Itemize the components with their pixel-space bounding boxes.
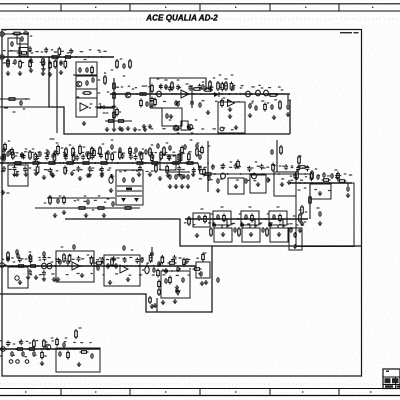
capacitor C16 (286, 104, 290, 110)
ground (29, 68, 33, 73)
label (121, 86, 124, 87)
node (273, 173, 275, 175)
wire (254, 219, 256, 228)
wire (76, 75, 97, 77)
label (148, 86, 150, 87)
label (178, 87, 181, 88)
label (229, 167, 232, 168)
label (169, 119, 172, 120)
enclosure box (162, 108, 182, 126)
ground (126, 277, 130, 282)
note ring mod (340, 32, 359, 33)
capacitor C5 (59, 60, 63, 66)
capacitor C27 (195, 143, 199, 149)
node N14 (27, 162, 29, 164)
enclosure box cell1b (214, 228, 232, 242)
node (262, 93, 264, 95)
node N23 (24, 265, 26, 267)
label (195, 87, 197, 88)
node N27 (162, 269, 164, 271)
label (166, 142, 169, 143)
capacitor (129, 154, 133, 160)
resistor R20 (279, 100, 282, 110)
capacitor (247, 166, 251, 172)
border zone tick (27, 7, 28, 8)
label (299, 155, 302, 156)
resistor R31 (81, 162, 91, 165)
label (241, 85, 244, 86)
capacitor C39 (28, 254, 32, 260)
node N11 (251, 93, 253, 95)
label (46, 149, 49, 150)
node (157, 162, 159, 164)
capacitor C53 (15, 249, 19, 255)
label (94, 200, 97, 201)
label (273, 165, 276, 166)
node (179, 268, 181, 270)
label (290, 223, 293, 224)
node (153, 265, 155, 267)
label (215, 101, 217, 102)
diode D2 (176, 291, 180, 295)
label (63, 152, 65, 153)
label (179, 257, 182, 258)
capacitor (44, 47, 48, 53)
resistor R2 (7, 58, 10, 68)
capacitor (100, 166, 104, 172)
label (171, 259, 174, 260)
capacitor C60 (145, 101, 149, 107)
potentiometer VR2 (145, 263, 149, 274)
capacitor C29 (111, 201, 115, 207)
label (26, 341, 28, 342)
faint fold line bottom (0, 383, 400, 385)
ground (318, 221, 322, 226)
resistor R62 (168, 262, 177, 265)
ground (52, 277, 56, 282)
label (120, 58, 123, 59)
resistor (34, 152, 37, 162)
node (75, 56, 77, 58)
signal bus wire (185, 218, 308, 220)
node (278, 173, 280, 175)
capacitor (198, 84, 202, 90)
capacitor (272, 214, 276, 220)
ground (112, 104, 116, 109)
ground (300, 221, 304, 226)
node (74, 162, 76, 164)
label (281, 89, 284, 90)
label (290, 175, 293, 176)
capacitor (18, 257, 22, 263)
resistor R46 (196, 147, 199, 157)
capacitor (330, 173, 334, 179)
label (73, 152, 76, 153)
ground (153, 303, 157, 308)
svg-text:ACE QUALIA AD-2: ACE QUALIA AD-2 (145, 14, 218, 23)
capacitor C9 (165, 113, 169, 119)
capacitor C47 (164, 268, 168, 274)
label (90, 273, 92, 274)
ground (105, 127, 109, 132)
label (221, 224, 223, 225)
op-amp U4 (120, 265, 128, 273)
wire (168, 171, 190, 173)
resistor R32 (99, 162, 109, 165)
node (101, 56, 103, 58)
ground (286, 112, 290, 117)
resistor R33 (135, 162, 145, 165)
resistor R36 (150, 162, 160, 165)
resistor R16 (209, 80, 212, 90)
resistor R16 (116, 59, 119, 69)
resistor (75, 329, 78, 339)
wire (105, 120, 132, 122)
resistor (91, 147, 94, 156)
label (0, 340, 2, 341)
wire (282, 219, 284, 228)
resistor R38 (185, 162, 195, 165)
capacitor (22, 153, 26, 159)
node (28, 56, 30, 58)
label (38, 152, 41, 153)
label (157, 78, 160, 79)
node (184, 162, 186, 164)
node (187, 218, 189, 220)
capacitor (174, 100, 178, 106)
capacitor (212, 222, 216, 228)
node (213, 93, 215, 95)
capacitor (6, 256, 10, 262)
ground (204, 280, 208, 285)
border zone divider (199, 389, 201, 396)
label (80, 169, 83, 170)
ground (88, 173, 92, 178)
label (98, 79, 101, 80)
capacitor C10 (85, 67, 89, 73)
border zone tick (305, 7, 306, 8)
resistor (183, 258, 186, 267)
label (268, 87, 271, 88)
label (76, 273, 79, 274)
ground (175, 285, 179, 290)
label (8, 140, 11, 141)
node (87, 56, 89, 58)
node (42, 348, 44, 350)
capacitor (296, 166, 300, 172)
resistor R11 (107, 120, 116, 123)
capacitor (180, 174, 184, 180)
capacitor (88, 166, 92, 172)
resistor R54 (17, 265, 26, 268)
ground (15, 172, 19, 177)
ground (24, 172, 28, 177)
resistor R8 (113, 81, 116, 91)
label (10, 50, 13, 51)
label (222, 127, 225, 128)
wire (226, 219, 228, 228)
label (23, 108, 26, 109)
resistor R13 (138, 93, 148, 96)
label (201, 208, 204, 209)
label (291, 165, 294, 166)
resistor (221, 82, 224, 92)
label (176, 275, 179, 276)
ground (42, 175, 46, 180)
label (173, 128, 175, 129)
section boundary wire (49, 57, 290, 134)
label (4, 107, 8, 108)
label (293, 215, 296, 216)
terminal ring (16, 360, 20, 364)
node (13, 162, 15, 164)
label (89, 49, 92, 50)
label (261, 87, 264, 88)
resistor (238, 227, 241, 237)
label (113, 152, 116, 153)
node (27, 348, 29, 350)
capacitor (19, 339, 23, 345)
capacitor (66, 259, 70, 265)
capacitor C35 (270, 149, 274, 155)
capacitor (20, 153, 24, 159)
label (99, 169, 102, 170)
label (41, 51, 44, 52)
wire (0, 33, 28, 35)
label (102, 274, 104, 275)
label (74, 200, 76, 201)
resistor R71 (264, 103, 267, 112)
label (45, 341, 47, 342)
node (39, 162, 41, 164)
node N6 (136, 93, 138, 95)
enclosure box (228, 178, 244, 194)
label (204, 167, 207, 168)
resistor R29 (47, 162, 57, 165)
label (132, 170, 135, 171)
label (119, 150, 122, 151)
resistor R76 (63, 196, 66, 205)
ground (221, 232, 225, 237)
label (227, 225, 230, 226)
capacitor (185, 258, 189, 264)
op-amp U3 (72, 262, 80, 270)
label (279, 224, 282, 225)
label (152, 274, 155, 275)
label (25, 148, 28, 149)
resistor (43, 339, 46, 349)
wire (117, 190, 142, 192)
ground (176, 126, 180, 131)
capacitor (244, 214, 248, 220)
label (65, 167, 68, 168)
label (0, 355, 3, 356)
resistor R74 (237, 160, 240, 169)
label (64, 341, 67, 342)
ground (256, 182, 260, 187)
node (117, 162, 119, 164)
label (239, 213, 242, 214)
ground (78, 176, 82, 181)
capacitor C31 (2, 147, 6, 153)
capacitor (122, 177, 126, 183)
wire (76, 97, 97, 99)
resistor R43 (203, 173, 213, 176)
resistor R23 (72, 147, 75, 158)
label (61, 147, 64, 148)
capacitor C37 (346, 186, 350, 192)
label (177, 101, 180, 102)
node (295, 173, 297, 175)
node (40, 56, 42, 58)
label (83, 146, 86, 147)
label (90, 103, 93, 104)
node N15 (44, 162, 46, 164)
potentiometer VR1 (311, 170, 314, 180)
label (29, 51, 31, 52)
capacitor (192, 167, 196, 173)
terminal ring (220, 127, 224, 131)
label (193, 224, 195, 225)
wire (287, 95, 289, 104)
node (117, 162, 119, 164)
label (139, 274, 142, 275)
border zone tick (302, 391, 303, 392)
capacitor (35, 155, 39, 161)
node (107, 162, 109, 164)
ground (169, 114, 173, 119)
capacitor C26 (183, 144, 187, 150)
label (184, 222, 187, 223)
capacitor (123, 257, 127, 263)
capacitor (216, 277, 220, 283)
label (16, 171, 19, 172)
ground (59, 70, 63, 75)
resistor (105, 152, 108, 162)
wire (151, 247, 153, 262)
label (197, 142, 200, 143)
label (29, 251, 32, 252)
capacitor C33 (252, 173, 257, 179)
schematic border (2, 30, 362, 377)
label (89, 257, 92, 258)
label (327, 175, 330, 176)
resistor (56, 338, 59, 347)
label (24, 151, 27, 152)
label (54, 51, 57, 52)
ground (100, 171, 104, 176)
resistor R61 (158, 288, 161, 296)
capacitor C43 (96, 265, 100, 271)
ground (186, 184, 190, 189)
node (144, 162, 146, 164)
resistor (181, 146, 184, 155)
node (3, 56, 5, 58)
label (150, 257, 153, 258)
label (111, 139, 114, 140)
resistor (3, 152, 6, 162)
capacitor C54 (10, 351, 14, 357)
op-amp U2 (228, 100, 235, 107)
capacitor C30 (56, 198, 60, 204)
node (103, 265, 105, 267)
label (19, 51, 22, 52)
capacitor (216, 214, 220, 220)
capacitor (2, 166, 6, 172)
resistor R28 (31, 162, 41, 165)
label (315, 168, 318, 169)
label (251, 167, 254, 168)
ground (177, 172, 181, 177)
capacitor C59 (91, 77, 95, 83)
capacitor C60 (216, 178, 220, 184)
label (199, 166, 202, 167)
border zone divider (199, 4, 201, 11)
label (38, 257, 40, 258)
resistor R56 (63, 253, 66, 263)
resistor R75 (201, 146, 204, 155)
label (194, 265, 197, 266)
node N26 (94, 265, 96, 267)
capacitor C23 (110, 144, 114, 150)
label (79, 327, 82, 328)
label (305, 211, 308, 212)
capacitor C48 (164, 278, 168, 284)
resistor (54, 59, 57, 69)
label (204, 252, 207, 253)
node (253, 218, 255, 220)
capacitor C42 (58, 259, 62, 265)
resistor (68, 254, 71, 264)
label (87, 153, 90, 154)
resistor (19, 59, 22, 69)
capacitor (198, 166, 202, 172)
ground (228, 114, 232, 119)
node (171, 270, 173, 272)
transistor Q5 (45, 344, 51, 350)
capacitor C90 (293, 232, 297, 238)
node (43, 265, 45, 267)
label (237, 101, 240, 102)
label (107, 198, 110, 199)
capacitor (76, 166, 80, 172)
label (219, 74, 222, 75)
section box (296, 183, 354, 247)
resistor (266, 227, 269, 237)
label (150, 101, 152, 102)
ground (34, 171, 38, 176)
signal bus wire (0, 162, 198, 164)
node (81, 265, 83, 267)
ground (182, 174, 186, 179)
capacitor (168, 174, 172, 180)
label (2, 259, 4, 260)
enclosure box (8, 38, 20, 51)
op-amp U2 (80, 103, 88, 111)
ground (70, 171, 74, 176)
label (221, 165, 224, 166)
resistor (58, 47, 61, 57)
label (80, 51, 83, 52)
ground (143, 127, 147, 132)
label (45, 49, 47, 50)
label (146, 171, 149, 172)
label (230, 161, 233, 162)
resistor R17 (129, 59, 132, 69)
enclosure box cell2a (241, 211, 259, 225)
node (88, 348, 90, 350)
resistor (155, 164, 158, 174)
